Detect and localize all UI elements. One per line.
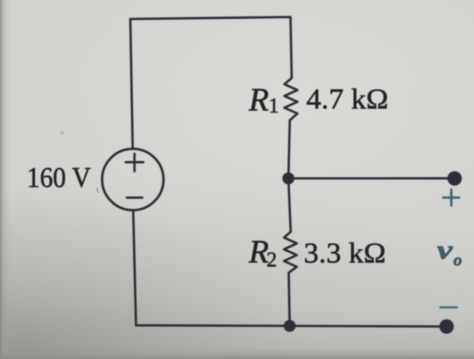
svg-text:160 V: 160 V xyxy=(27,163,91,194)
svg-text:2: 2 xyxy=(267,248,278,272)
svg-text:v: v xyxy=(437,235,453,264)
svg-text:R: R xyxy=(248,83,269,119)
svg-text:3.3 kΩ: 3.3 kΩ xyxy=(304,238,386,270)
svg-text:o: o xyxy=(454,251,463,270)
svg-text:1: 1 xyxy=(269,93,280,117)
svg-text:4.7 kΩ: 4.7 kΩ xyxy=(306,84,388,116)
